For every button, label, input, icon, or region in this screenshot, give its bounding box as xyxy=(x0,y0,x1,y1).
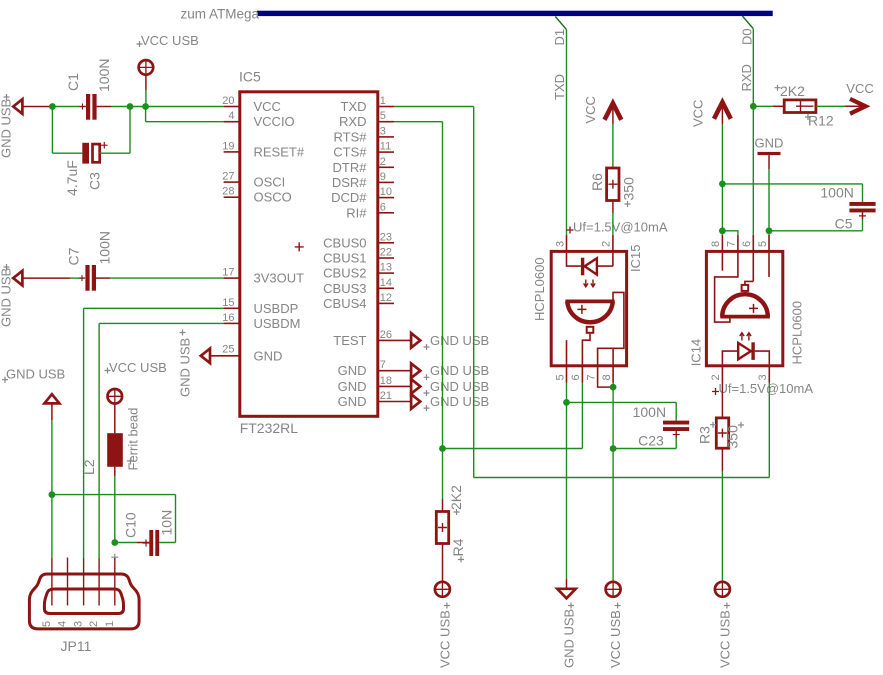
svg-text:C7: C7 xyxy=(66,247,82,265)
supply VCC USB circle top xyxy=(137,33,199,107)
diode LED inside IC14 xyxy=(722,333,769,365)
bus zum ATMega xyxy=(181,7,773,22)
pin 26 TEST xyxy=(333,329,411,348)
svg-text:CBUS2: CBUS2 xyxy=(323,266,366,281)
resistor R6 xyxy=(589,124,637,235)
svg-text:C3: C3 xyxy=(87,172,103,190)
ground GND USB arrow pin25 xyxy=(178,330,211,398)
op-amp IC14 pin 7 top xyxy=(726,235,738,250)
svg-text:10: 10 xyxy=(380,186,392,198)
svg-text:zum ATMega: zum ATMega xyxy=(181,7,260,22)
resistor R3 xyxy=(697,383,745,582)
ground GND USB arrow pin26 xyxy=(411,333,489,350)
inductor L2 ferrite bead xyxy=(81,408,141,543)
wire IC14 pin7 to VCC line xyxy=(722,231,738,235)
supply VCC USB circle bottom middle xyxy=(605,581,623,668)
pin 9 DSR# xyxy=(332,171,394,190)
supply VCC USB circle bottom right xyxy=(714,581,732,668)
svg-text:RTS#: RTS# xyxy=(334,129,368,144)
capacitor C10 xyxy=(115,510,176,556)
svg-text:TXD: TXD xyxy=(341,99,367,114)
svg-text:9: 9 xyxy=(380,171,386,183)
svg-text:6: 6 xyxy=(741,241,753,247)
wire USBDP to JP11 pin3 xyxy=(84,308,224,558)
junction node IC15 pin5 xyxy=(563,399,570,406)
junction node VCC/C5 xyxy=(719,181,726,188)
svg-text:3: 3 xyxy=(73,621,85,627)
pin 20 VCC xyxy=(222,95,281,114)
wire RXD from IC5 to IC15 pin6 xyxy=(394,122,582,449)
pin 25 GND xyxy=(211,343,282,363)
pin 11 CTS# xyxy=(333,141,394,160)
svg-text:20: 20 xyxy=(222,95,234,107)
svg-text:2: 2 xyxy=(88,621,100,627)
pin 2 DTR# xyxy=(333,156,394,175)
junction node RXD/R4 xyxy=(439,445,446,452)
wire C1 row xyxy=(52,106,223,108)
bus rip D0 xyxy=(742,16,753,29)
svg-text:USBDM: USBDM xyxy=(254,316,301,331)
net label TXD xyxy=(552,74,567,100)
pin 28 OSCO xyxy=(222,186,292,205)
svg-text:4: 4 xyxy=(57,621,69,627)
svg-text:IC5: IC5 xyxy=(239,69,261,85)
svg-text:GND: GND xyxy=(755,136,784,151)
svg-text:8: 8 xyxy=(601,374,613,380)
op-amp IC14 pin 3 bottom xyxy=(757,367,769,383)
pin 3 RTS# xyxy=(334,125,395,144)
svg-text:Uf=1.5V@10mA: Uf=1.5V@10mA xyxy=(573,220,668,235)
ground GND USB arrow left (VCC row) xyxy=(0,94,52,158)
junction dots C1 row xyxy=(49,103,149,110)
svg-text:GND USB: GND USB xyxy=(430,394,489,409)
op-amp IC15 pin 7 bottom xyxy=(585,367,597,383)
op-amp IC14 pin 5 top xyxy=(757,235,769,250)
svg-text:13: 13 xyxy=(380,262,392,274)
supply VCC USB circle at ferrite bead xyxy=(105,360,167,433)
svg-text:OSCO: OSCO xyxy=(254,190,292,205)
svg-text:2K2: 2K2 xyxy=(448,485,464,510)
svg-text:RXD: RXD xyxy=(739,64,754,91)
pin 27 OSCI xyxy=(222,171,285,190)
pin 17 3V3OUT xyxy=(222,267,304,286)
svg-text:R12: R12 xyxy=(808,113,834,129)
label Uf IC14 xyxy=(712,381,813,396)
wire USBDM to JP11 pin2 xyxy=(99,323,224,558)
pin 14 CBUS3 xyxy=(323,277,394,296)
svg-text:GND USB: GND USB xyxy=(430,333,489,348)
capacitor C7 xyxy=(66,231,224,291)
svg-text:VCC USB: VCC USB xyxy=(109,360,167,375)
svg-text:GND: GND xyxy=(338,363,367,378)
svg-text:D1: D1 xyxy=(552,29,567,46)
svg-text:GND USB: GND USB xyxy=(430,379,489,394)
diode LED inside IC15 xyxy=(567,253,613,287)
svg-text:100N: 100N xyxy=(96,59,112,92)
svg-text:7: 7 xyxy=(585,374,597,380)
op-amp IC14 pin 2 bottom xyxy=(710,367,722,383)
pin 21 GND xyxy=(338,390,411,409)
wire IC15 pin5 to GND and C23 xyxy=(567,383,677,579)
svg-text:RESET#: RESET# xyxy=(254,144,305,159)
svg-text:IC14: IC14 xyxy=(689,339,704,366)
wire IC15 pin7 to pin8 xyxy=(598,383,614,388)
svg-text:JP11: JP11 xyxy=(61,638,92,654)
svg-text:GND USB: GND USB xyxy=(6,367,65,382)
svg-text:2: 2 xyxy=(710,374,722,380)
op-amp IC15 pin 2 top xyxy=(601,235,613,250)
svg-text:Uf=1.5V@10mA: Uf=1.5V@10mA xyxy=(719,381,814,396)
svg-text:D0: D0 xyxy=(740,28,755,45)
svg-text:IC15: IC15 xyxy=(628,245,643,272)
junction node pin7/pin8 xyxy=(610,384,617,391)
svg-text:5: 5 xyxy=(41,621,53,627)
capacitor C3 electrolytic xyxy=(64,142,108,196)
node label D1 xyxy=(552,29,567,46)
op-amp IC15 pin 6 bottom xyxy=(570,367,582,383)
svg-text:26: 26 xyxy=(380,329,392,341)
svg-text:6: 6 xyxy=(570,374,582,380)
svg-text:10N: 10N xyxy=(159,510,175,536)
wire TXD from IC5 to IC14 pin3 xyxy=(394,107,769,478)
net label RXD xyxy=(739,64,754,91)
svg-text:CBUS1: CBUS1 xyxy=(323,251,366,266)
svg-text:18: 18 xyxy=(380,375,392,387)
op-amp IC15 pin 5 bottom xyxy=(554,367,566,383)
wire net RXD/D0 vertical xyxy=(752,29,754,235)
svg-text:C1: C1 xyxy=(65,73,81,91)
wire C3 loop left xyxy=(52,107,82,154)
supply VCC USB circle bottom left xyxy=(434,581,452,668)
svg-text:5: 5 xyxy=(554,374,566,380)
svg-text:VCCIO: VCCIO xyxy=(254,114,295,129)
resistor R4 xyxy=(436,449,466,582)
svg-text:VCC: VCC xyxy=(583,96,598,123)
svg-text:HCPL0600: HCPL0600 xyxy=(790,301,805,365)
svg-text:6: 6 xyxy=(380,201,386,213)
junction node RXD/R12 xyxy=(750,103,757,110)
ground GND USB arrow pin18 xyxy=(411,379,489,396)
svg-text:FT232RL: FT232RL xyxy=(240,420,299,436)
svg-text:GND USB: GND USB xyxy=(0,99,14,158)
connector JP11 pin 1 xyxy=(104,558,116,627)
svg-text:3V3OUT: 3V3OUT xyxy=(254,271,305,286)
pin 16 USBDM xyxy=(222,312,300,331)
ground GND USB arrow left (3V3OUT row) xyxy=(0,264,85,327)
svg-text:GND USB: GND USB xyxy=(0,268,14,327)
connector JP11 outline xyxy=(29,554,139,654)
svg-text:C5: C5 xyxy=(835,216,853,232)
svg-text:VCC: VCC xyxy=(846,81,873,96)
svg-text:R4: R4 xyxy=(450,538,466,556)
svg-text:VCC USB: VCC USB xyxy=(608,610,623,668)
svg-text:1: 1 xyxy=(380,95,386,107)
op-amp IC14 optocoupler box xyxy=(689,251,805,366)
connector JP11 pin 5 xyxy=(41,558,53,627)
svg-text:17: 17 xyxy=(222,267,234,279)
power VCC arrow above R6 xyxy=(583,96,621,124)
resistor R12 xyxy=(753,83,864,129)
pin 19 RESET# xyxy=(222,140,305,159)
svg-text:25: 25 xyxy=(222,343,234,355)
capacitor C1 xyxy=(65,59,112,120)
svg-text:R6: R6 xyxy=(589,173,605,191)
svg-text:CBUS3: CBUS3 xyxy=(323,281,366,296)
wire net TXD/D1 vertical xyxy=(566,30,568,235)
pin 6 RI# xyxy=(346,201,394,220)
op-amp IC15 optocoupler box xyxy=(532,245,643,366)
svg-text:GND: GND xyxy=(254,348,283,363)
svg-text:RI#: RI# xyxy=(346,205,367,220)
junction dot C10/JP pin1 xyxy=(111,539,118,546)
op-amp IC14 pin 6 top xyxy=(741,235,753,250)
label Uf IC15 xyxy=(567,220,668,235)
svg-text:16: 16 xyxy=(222,312,234,324)
junction dot GND wire xyxy=(49,491,56,498)
svg-text:2K2: 2K2 xyxy=(780,83,805,99)
connector JP11 pin 4 xyxy=(57,558,69,628)
svg-text:CBUS0: CBUS0 xyxy=(323,235,366,250)
svg-text:DCD#: DCD# xyxy=(331,190,367,205)
svg-text:GND USB: GND USB xyxy=(430,363,489,378)
svg-text:VCC: VCC xyxy=(691,100,706,127)
pin 23 CBUS0 xyxy=(323,231,394,250)
svg-text:GND USB: GND USB xyxy=(178,338,193,397)
connector JP11 pin 3 xyxy=(73,558,85,627)
svg-text:DSR#: DSR# xyxy=(332,175,367,190)
svg-text:VCC USB: VCC USB xyxy=(717,610,732,668)
transistor detector dome inside IC14 xyxy=(715,253,770,322)
svg-text:TXD: TXD xyxy=(552,74,567,100)
op-amp IC15 pin 3 top xyxy=(554,235,566,250)
pin 7 GND xyxy=(338,359,411,378)
svg-text:5: 5 xyxy=(380,110,386,122)
svg-text:4: 4 xyxy=(228,110,234,122)
svg-text:HCPL0600: HCPL0600 xyxy=(532,257,547,321)
pin 4 VCCIO xyxy=(224,110,295,129)
node label D0 xyxy=(740,28,755,45)
svg-text:350: 350 xyxy=(621,177,637,201)
svg-text:21: 21 xyxy=(380,390,392,402)
pin 12 CBUS4 xyxy=(323,292,394,311)
ground symbol GND above IC14 pin5 xyxy=(755,136,784,235)
svg-text:C10: C10 xyxy=(123,512,139,538)
pin 1 TXD xyxy=(341,95,395,114)
svg-text:7: 7 xyxy=(726,241,738,247)
svg-text:GND: GND xyxy=(338,379,367,394)
svg-text:100N: 100N xyxy=(820,185,853,201)
connector JP11 pin 2 xyxy=(88,558,100,627)
svg-text:4.7uF: 4.7uF xyxy=(64,160,80,196)
ground GND USB arrow pin7 xyxy=(411,363,489,380)
ground GND USB arrow up near JP11 xyxy=(2,367,65,559)
svg-text:14: 14 xyxy=(380,277,392,289)
wire IC15 pin8 down to VCC USB xyxy=(612,383,614,582)
svg-text:VCC USB: VCC USB xyxy=(437,610,452,668)
svg-text:VCC USB: VCC USB xyxy=(141,33,199,48)
svg-text:28: 28 xyxy=(222,186,234,198)
svg-text:5: 5 xyxy=(757,241,769,247)
pin 10 DCD# xyxy=(331,186,394,205)
wire C3 loop right xyxy=(99,107,130,154)
capacitor C23 xyxy=(613,404,689,449)
svg-text:VCC: VCC xyxy=(254,99,281,114)
svg-text:23: 23 xyxy=(380,231,392,243)
svg-text:GND: GND xyxy=(338,394,367,409)
svg-text:3: 3 xyxy=(757,374,769,380)
svg-text:1: 1 xyxy=(104,621,116,627)
svg-text:3: 3 xyxy=(554,241,566,247)
ground GND USB arrow pin21 xyxy=(411,394,489,411)
svg-text:R3: R3 xyxy=(697,426,713,444)
pin 5 RXD xyxy=(339,110,394,129)
svg-text:CBUS4: CBUS4 xyxy=(323,296,366,311)
svg-text:RXD: RXD xyxy=(339,114,366,129)
svg-text:OSCI: OSCI xyxy=(254,175,286,190)
svg-text:12: 12 xyxy=(380,292,392,304)
wire GND loop to C10 xyxy=(52,495,176,543)
op-amp IC5 box FT232RL xyxy=(239,69,378,436)
svg-text:15: 15 xyxy=(222,297,234,309)
svg-text:22: 22 xyxy=(380,247,392,259)
svg-text:CTS#: CTS# xyxy=(333,145,367,160)
svg-text:8: 8 xyxy=(710,241,722,247)
svg-text:USBDP: USBDP xyxy=(254,301,299,316)
svg-text:L2: L2 xyxy=(81,459,97,475)
op-amp IC14 pin 8 top xyxy=(710,235,722,250)
pin 18 GND xyxy=(338,375,411,394)
pin 22 CBUS1 xyxy=(323,247,394,266)
power VCC arrow right of R12 xyxy=(846,81,873,114)
transistor detector dome inside IC15 xyxy=(565,292,623,365)
pin 13 CBUS2 xyxy=(323,262,394,281)
bus rip D1 xyxy=(555,17,566,30)
capacitor C5 xyxy=(722,184,875,232)
svg-text:19: 19 xyxy=(222,140,234,152)
pin 15 USBDP xyxy=(222,297,298,316)
svg-text:7: 7 xyxy=(380,359,386,371)
svg-text:3: 3 xyxy=(380,125,386,137)
svg-text:100N: 100N xyxy=(97,231,113,264)
junction node pin5/C5 xyxy=(766,227,773,234)
svg-text:C23: C23 xyxy=(638,433,664,449)
svg-text:2: 2 xyxy=(601,241,613,247)
svg-text:350: 350 xyxy=(725,425,741,449)
power VCC arrow for IC14 xyxy=(691,100,731,235)
svg-text:100N: 100N xyxy=(633,404,666,420)
junction node VCC/pin7 xyxy=(719,227,726,234)
ground GND USB arrow down bottom xyxy=(557,579,576,668)
svg-text:11: 11 xyxy=(380,141,391,153)
wire VCCIO branch xyxy=(146,107,224,122)
svg-text:DTR#: DTR# xyxy=(333,160,368,175)
svg-text:GND USB: GND USB xyxy=(562,609,577,668)
junction node C23/pin8 xyxy=(610,445,617,452)
svg-text:2: 2 xyxy=(380,156,386,168)
svg-text:TEST: TEST xyxy=(333,333,366,348)
svg-text:27: 27 xyxy=(222,171,234,183)
op-amp IC15 pin 8 bottom xyxy=(601,367,613,383)
